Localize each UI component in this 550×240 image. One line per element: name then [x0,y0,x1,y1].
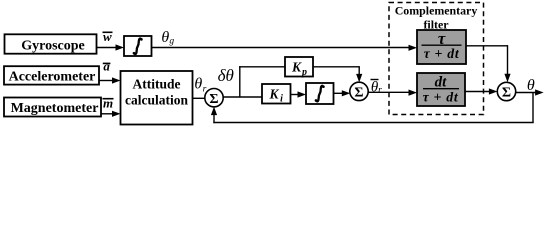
wire feedback up into S1 bottom [211,107,217,124]
svg-text:Σ: Σ [209,92,218,107]
svg-text:θ: θ [194,75,202,92]
block Kp [285,57,313,78]
svg-text:Σ: Σ [354,86,363,101]
svg-text:τ + dt: τ + dt [423,89,459,104]
svg-text:Gyroscope: Gyroscope [21,38,85,53]
wire branch node up to Kp row [239,66,241,97]
block Accelerometer [4,66,99,84]
block integrator U1 [124,36,152,56]
wire S1 to Ki [223,96,262,98]
svg-text:i: i [280,94,283,105]
wire S2 to complementary filter bottom block [368,90,417,96]
svg-text:g: g [169,37,174,47]
svg-text:Σ: Σ [502,86,511,101]
svg-text:m: m [103,95,113,110]
svg-text:K: K [291,59,302,74]
wire bottom block to S3 [465,88,497,94]
svg-text:θ: θ [527,77,535,94]
label theta-bar_r [371,79,383,95]
summer S3 [497,82,515,100]
svg-text:δθ: δθ [218,66,234,85]
svg-text:τ + dt: τ + dt [424,46,460,61]
svg-text:r: r [378,86,382,96]
summer S2 [350,82,368,100]
svg-text:a: a [103,59,110,74]
block Magnetometer [4,98,101,117]
wire gyro to integrator with label w-bar [97,29,125,51]
label theta_g [161,29,174,47]
wire S3 output with label theta [516,77,544,96]
wire magnetometer to attitude with label m-bar [101,95,121,117]
wire accelerometer to attitude with label a-bar [99,59,121,84]
svg-text:Magnetometer: Magnetometer [11,101,99,116]
svg-text:θ: θ [161,29,169,46]
wire Kp to down-corner and arrow into S2 top [313,66,362,82]
label theta_r [194,75,206,94]
wire branch to Kp [239,66,285,68]
svg-text:Accelerometer: Accelerometer [9,69,96,84]
wire attitude to summer S1 [193,97,206,99]
dashed box complementary filter [389,3,484,115]
summer S1 [205,89,223,107]
svg-text:w: w [103,29,112,44]
block integrator U2 [306,83,334,104]
block Attitude calculation [121,71,193,125]
block Gyroscope [5,34,97,53]
svg-text:Attitude: Attitude [133,77,181,92]
wire Ki to integrator U2 [291,91,307,97]
svg-text:Complementary: Complementary [395,3,478,17]
block tau over tau plus dt [417,29,466,64]
wire top block to down-corner and arrow into S3 top [466,45,511,82]
wire integrator U2 to summer S2 [334,90,351,96]
svg-text:p: p [301,67,307,78]
wire feedback from output node down and left [213,93,533,123]
svg-text:calculation: calculation [125,93,188,108]
wire theta_g line from integrator to complementary filter top block [152,45,418,51]
label Complementary filter title [395,3,478,31]
svg-text:K: K [268,86,279,101]
block dt over tau plus dt [417,73,465,106]
block Ki [262,84,291,105]
